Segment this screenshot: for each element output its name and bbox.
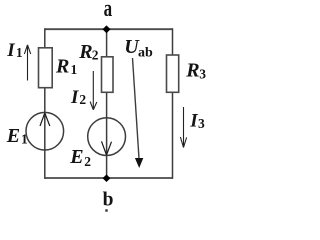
source E2 xyxy=(88,118,126,156)
U_ab arrow xyxy=(133,58,140,159)
svg-text:ab: ab xyxy=(138,45,153,60)
svg-text:R: R xyxy=(185,59,199,81)
U_ab arrowhead xyxy=(135,158,143,168)
svg-text:2: 2 xyxy=(84,154,91,169)
svg-text:R: R xyxy=(55,55,69,77)
current arrow I1 xyxy=(24,45,30,81)
E2 arrowhead xyxy=(102,141,112,155)
svg-text:E: E xyxy=(6,125,20,147)
svg-text:1: 1 xyxy=(16,45,23,60)
svg-text:I: I xyxy=(70,87,79,108)
resistor R2 xyxy=(102,57,114,93)
svg-text:E: E xyxy=(69,146,83,168)
svg-text:1: 1 xyxy=(21,131,28,146)
current arrow I3 xyxy=(180,107,186,148)
node b dot xyxy=(103,174,111,182)
svg-text:I: I xyxy=(189,111,198,132)
resistor R1 xyxy=(39,48,53,88)
svg-text:1: 1 xyxy=(71,62,78,77)
wire left branch xyxy=(44,28,46,179)
current arrow I2 xyxy=(90,71,97,110)
resistor R3 xyxy=(167,55,179,92)
svg-text:3: 3 xyxy=(199,66,206,81)
wire middle branch xyxy=(106,28,108,179)
E1 arrowhead xyxy=(40,113,50,126)
svg-text:I: I xyxy=(6,40,15,61)
svg-text:a: a xyxy=(104,0,113,22)
source E1 xyxy=(26,112,64,150)
svg-text:2: 2 xyxy=(92,47,99,62)
wire right branch xyxy=(172,28,174,179)
wire top a-rail xyxy=(45,28,173,30)
svg-text:b: b xyxy=(103,190,114,211)
wire bottom b-rail xyxy=(45,177,173,179)
svg-text:R: R xyxy=(78,41,92,63)
stray mark below b xyxy=(105,209,107,211)
svg-text:2: 2 xyxy=(79,92,86,107)
node a dot xyxy=(103,25,111,33)
svg-text:3: 3 xyxy=(198,116,205,131)
